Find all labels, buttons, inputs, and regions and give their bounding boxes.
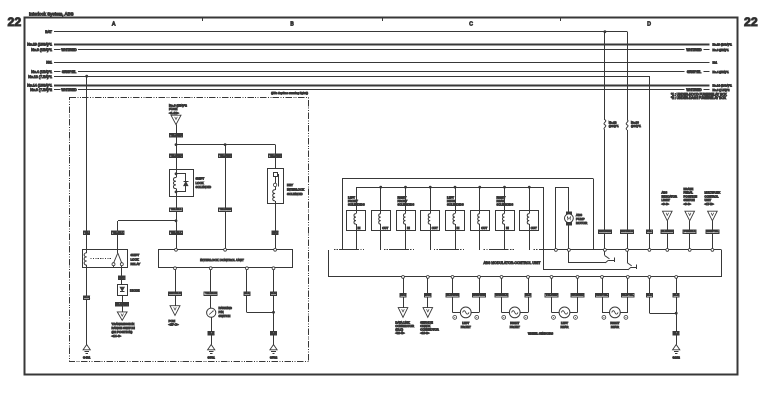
- svg-text:OUT: OUT: [382, 226, 388, 230]
- svg-text:SOLENOIDS: SOLENOIDS: [348, 203, 365, 207]
- wire WHT/BLU to PCM: [169, 270, 182, 306]
- svg-text:WHT/BLU: WHT/BLU: [169, 291, 181, 295]
- svg-text:<9-8>: <9-8>: [662, 202, 670, 206]
- svg-text:G501: G501: [208, 355, 216, 359]
- wire YEL/RED to key interlock solenoid: [269, 145, 282, 169]
- footnote fuse box legend: [671, 92, 728, 100]
- svg-text:GRY: GRY: [400, 293, 406, 297]
- wire BLU/GRN to LEFT FRONT sensor: [446, 278, 460, 312]
- wire BLU to RIGHT FRONT sensor: [520, 278, 531, 312]
- wire YEL/RED from fuse: [170, 125, 183, 170]
- svg-text:IN: IN: [407, 226, 410, 230]
- solenoid LEFT REAR OUT: [471, 187, 490, 250]
- svg-text:BLU: BLU: [525, 293, 530, 297]
- op box interlock control unit U1: [159, 248, 293, 269]
- wire No.13 (7.5A) bus: [28, 75, 649, 79]
- svg-text:REAR: REAR: [560, 325, 568, 329]
- svg-text:GRN/YEL: GRN/YEL: [687, 70, 701, 74]
- svg-text:<14-4>: <14-4>: [112, 334, 122, 338]
- wire GRY key interlock to control unit: [272, 204, 278, 249]
- solenoid LEFT FRONT OUT: [372, 187, 391, 250]
- wire GRN/YEL No.4 (15A) bus: [31, 70, 729, 74]
- label RIGHT FRONT SOLENOIDS: [398, 195, 415, 206]
- wire BLK U2 pin 11: [646, 278, 676, 313]
- svg-text:FRONT: FRONT: [461, 325, 471, 329]
- svg-text:No.6 (7.5A)*2: No.6 (7.5A)*2: [713, 88, 730, 92]
- svg-text:SOLENOID: SOLENOID: [196, 185, 212, 189]
- svg-text:<16-3>: <16-3>: [395, 331, 404, 335]
- wire motor feed over solenoids: [342, 178, 594, 250]
- svg-text:PNK/BLK: PNK/BLK: [684, 229, 696, 233]
- wire IG1 bus: [46, 61, 717, 65]
- svg-text:YEL/RED: YEL/RED: [546, 293, 558, 297]
- sensor wheel LEFT FRONT: [453, 307, 479, 329]
- label RIGHT REAR SOLENOIDS: [497, 195, 514, 206]
- wire BLK control unit pin 3: [244, 270, 274, 313]
- svg-text:GRN/BLK: GRN/BLK: [495, 293, 507, 297]
- svg-text:(KS: daytime running lights): (KS: daytime running lights): [271, 91, 308, 95]
- label LEFT REAR SOLENOIDS: [447, 195, 464, 206]
- connector arrow multiplex control unit with wire GRN/YEL: [705, 191, 721, 249]
- switch parking pin: [207, 306, 233, 318]
- node BAT junction: [604, 30, 607, 33]
- wire GRN/YEL to RIGHT REAR sensor: [596, 278, 610, 312]
- svg-text:GRY: GRY: [119, 275, 125, 279]
- svg-text:INTERLOCK CONTROL UNIT: INTERLOCK CONTROL UNIT: [200, 258, 244, 262]
- svg-text:YEL/RED: YEL/RED: [219, 154, 231, 158]
- dashed box KS daytime running lights: [70, 91, 309, 361]
- svg-text:BRN/WHT: BRN/WHT: [473, 293, 486, 297]
- svg-text:G401: G401: [83, 355, 91, 359]
- svg-text:D: D: [647, 22, 651, 28]
- solenoid RIGHT FRONT OUT: [421, 187, 440, 250]
- wire BLK control unit pin 4 to ground: [270, 270, 276, 345]
- sensor wheel RIGHT FRONT: [502, 307, 528, 329]
- label wheel sensors: [528, 332, 553, 336]
- svg-text:BLK: BLK: [647, 293, 652, 297]
- wire GRY relay to diode: [119, 268, 125, 285]
- svg-text:YEL/BLK: YEL/BLK: [112, 230, 123, 234]
- wire YEL/RED branch node: [175, 143, 276, 146]
- solenoid shift lock: [170, 170, 212, 197]
- pins U2 bottom: [402, 276, 678, 279]
- svg-text:C: C: [469, 22, 473, 28]
- relay contact fail-safe (inside U2): [544, 187, 637, 270]
- ground G502: [270, 345, 278, 360]
- wire BAT bus: [45, 30, 627, 34]
- svg-text:<17-B>: <17-B>: [705, 202, 715, 206]
- svg-text:*2 : UNDER-DASH FUSE/RELAY BOX: *2 : UNDER-DASH FUSE/RELAY BOX: [671, 96, 727, 100]
- svg-text:YEL/RED: YEL/RED: [170, 154, 182, 158]
- svg-text:BAT: BAT: [45, 30, 53, 34]
- wire WHT/RED No.6 (15A) bus: [31, 48, 729, 52]
- svg-text:BLK: BLK: [674, 293, 679, 297]
- svg-text:SOLENOID: SOLENOID: [287, 192, 303, 196]
- svg-text:BRN: BRN: [425, 293, 431, 297]
- motor ABS pump: [556, 187, 588, 250]
- solenoid key interlock: [268, 169, 305, 204]
- svg-text:YEL/RED: YEL/RED: [219, 207, 231, 211]
- svg-text:BLK: BLK: [271, 331, 276, 335]
- connector arrow transmission range switch: [112, 312, 135, 338]
- svg-text:BLU/GRN: BLU/GRN: [446, 293, 458, 297]
- svg-text:WHT/BLU: WHT/BLU: [621, 229, 633, 233]
- svg-text:No.6 (15A)*1: No.6 (15A)*1: [713, 48, 730, 52]
- wire GRY/RED to LEFT REAR sensor: [570, 278, 584, 312]
- diode box: [118, 285, 140, 296]
- sensor wheel RIGHT REAR: [602, 307, 628, 329]
- connector arrow brake pedal position switch with wire PNK/BLK: [683, 187, 697, 249]
- page number left: [8, 15, 22, 29]
- title Interlock System, ABS: [29, 12, 74, 17]
- svg-text:DIODE: DIODE: [130, 289, 140, 293]
- wire solenoid supply rail: [356, 186, 544, 189]
- ground G202: [673, 345, 681, 360]
- solenoid RIGHT REAR IN: [496, 187, 515, 250]
- svg-text:BLU/RED: BLU/RED: [661, 229, 673, 233]
- wire YEL from No.13 bus: [84, 75, 90, 250]
- wire BLK parking pin switch to ground: [208, 317, 214, 344]
- wire WHT/RED No.6 (7.5A) bus: [30, 88, 730, 92]
- svg-text:GRN/YEL: GRN/YEL: [706, 229, 719, 233]
- svg-text:GRN/YEL: GRN/YEL: [596, 293, 609, 297]
- op box ABS modulator-control unit U2: [328, 250, 721, 277]
- svg-text:G202: G202: [673, 355, 681, 359]
- grid column letters: [112, 22, 651, 28]
- connector arrow service check connector: [420, 308, 439, 336]
- svg-text:REAR: REAR: [611, 325, 619, 329]
- svg-text:MOTOR: MOTOR: [576, 221, 588, 225]
- svg-text:WHEEL SENSORS: WHEEL SENSORS: [528, 332, 553, 336]
- svg-text:SOLENOIDS: SOLENOIDS: [447, 203, 464, 207]
- svg-text:No.6 (7.5A)*2: No.6 (7.5A)*2: [30, 88, 52, 92]
- fuse No.6 (15A) page arrow: [169, 104, 187, 125]
- svg-text:WHT/RED: WHT/RED: [686, 48, 702, 52]
- ground G401: [83, 345, 91, 360]
- wire No.14 (100A) bus: [27, 83, 732, 87]
- svg-text:YEL/RED: YEL/RED: [269, 154, 281, 158]
- svg-text:OUT: OUT: [481, 226, 487, 230]
- pins U2 top: [648, 249, 714, 252]
- svg-text:(30A)*1: (30A)*1: [631, 124, 641, 128]
- svg-text:22: 22: [8, 15, 22, 29]
- fusible link No.13 (30A) with wire WHT/RED: [598, 32, 619, 249]
- svg-text:YEL/BLU: YEL/BLU: [205, 291, 216, 295]
- wire YEL/RED to shift lock solenoid: [170, 154, 183, 158]
- connector arrow PCM: [169, 306, 181, 327]
- svg-text:OUT: OUT: [432, 226, 438, 230]
- svg-text:No.6 (15A)*1: No.6 (15A)*1: [31, 48, 52, 52]
- svg-text:WHT/RED: WHT/RED: [686, 88, 702, 92]
- svg-text:SWITCH: SWITCH: [219, 314, 231, 318]
- svg-text:G502: G502: [270, 355, 278, 359]
- relay shift lock: [83, 250, 141, 269]
- svg-text:<9-8>: <9-8>: [684, 202, 692, 206]
- solenoid LEFT FRONT IN: [347, 187, 366, 250]
- svg-text:YEL/BLK: YEL/BLK: [170, 230, 181, 234]
- svg-text:No.4 (15A)*1: No.4 (15A)*1: [31, 70, 52, 74]
- wire YEL/BLU to parking pin switch: [204, 270, 217, 309]
- page number right: [744, 15, 758, 29]
- wire YEL/RED to LEFT REAR sensor: [545, 278, 559, 312]
- svg-text:BLU/YEL: BLU/YEL: [622, 293, 634, 297]
- svg-text:YEL: YEL: [647, 229, 653, 233]
- svg-text:No.14 (100A)*1: No.14 (100A)*1: [27, 83, 52, 87]
- sensor wheel LEFT REAR: [552, 307, 578, 329]
- relay contact motor (inside U2): [555, 249, 615, 263]
- svg-text:IN: IN: [457, 226, 460, 230]
- label LEFT FRONT SOLENOIDS: [348, 195, 365, 206]
- svg-text:FRONT: FRONT: [510, 325, 520, 329]
- svg-text:GRY: GRY: [272, 230, 278, 234]
- connector arrow data link connector DLC: [395, 308, 414, 336]
- svg-text:OUT: OUT: [531, 226, 537, 230]
- svg-text:IN: IN: [506, 226, 509, 230]
- wire No.19 (100A) bus: [27, 42, 732, 46]
- svg-text:IG1: IG1: [713, 61, 718, 65]
- wire YEL from No.13 bus to ABS unit: [646, 76, 652, 248]
- svg-text:BLK: BLK: [209, 331, 214, 335]
- wire GRY to data link connector: [400, 278, 406, 307]
- svg-text:SOLENOIDS: SOLENOIDS: [398, 203, 415, 207]
- svg-text:No.19 (100A)*1: No.19 (100A)*1: [713, 42, 733, 46]
- svg-text:BLK/RED: BLK/RED: [116, 302, 128, 306]
- solenoid RIGHT REAR OUT: [520, 187, 539, 250]
- svg-text:<1-12>: <1-12>: [169, 111, 179, 115]
- svg-text:(30A)*1: (30A)*1: [609, 124, 619, 128]
- svg-text:ABS MODULATOR-CONTROL UNIT: ABS MODULATOR-CONTROL UNIT: [483, 261, 540, 265]
- svg-text:GRN/YEL: GRN/YEL: [62, 70, 76, 74]
- svg-text:<16-3>: <16-3>: [420, 331, 429, 335]
- svg-text:Interlock System, ABS: Interlock System, ABS: [29, 12, 74, 17]
- svg-text:No.19 (100A)*1: No.19 (100A)*1: [27, 42, 52, 46]
- svg-text:No.4 (15A)*1: No.4 (15A)*1: [713, 70, 730, 74]
- solenoid RIGHT FRONT IN: [397, 187, 416, 250]
- wire BLU/YEL to RIGHT REAR sensor: [620, 278, 634, 312]
- svg-text:WHT/RED: WHT/RED: [61, 88, 77, 92]
- svg-text:<27-C>: <27-C>: [169, 323, 179, 327]
- svg-text:YEL/RED: YEL/RED: [170, 133, 182, 137]
- fusible link No.36 (30A) with wire WHT/BLU: [621, 32, 642, 249]
- svg-text:No.13 (7.5A)*1: No.13 (7.5A)*1: [28, 75, 52, 79]
- svg-text:BLK: BLK: [674, 331, 679, 335]
- svg-text:GRY/RED: GRY/RED: [571, 293, 583, 297]
- svg-text:WHT/RED: WHT/RED: [598, 229, 611, 233]
- svg-text:BLK: BLK: [271, 291, 276, 295]
- wire BLK/RED to transmission range switch: [116, 296, 129, 312]
- svg-text:No.14 (100A)*1: No.14 (100A)*1: [713, 83, 733, 87]
- svg-text:RELAY: RELAY: [131, 262, 141, 266]
- svg-text:IN: IN: [358, 226, 361, 230]
- wire BRN to service check connector: [425, 278, 431, 307]
- svg-text:22: 22: [744, 15, 758, 29]
- wire YEL/BLK net: [111, 197, 182, 250]
- svg-text:WHT/RED: WHT/RED: [61, 48, 77, 52]
- wire GRN/BLK to RIGHT FRONT sensor: [495, 278, 509, 312]
- connector arrow ABS indicator light with wire BLU/RED: [661, 191, 677, 249]
- ground G501: [208, 345, 216, 360]
- solenoid LEFT REAR IN: [446, 187, 465, 250]
- svg-text:BLK: BLK: [84, 295, 89, 299]
- wire BLK U2 pin 12 to ground: [673, 278, 679, 344]
- svg-text:BLK: BLK: [244, 291, 249, 295]
- wire BRN/WHT to LEFT FRONT sensor: [471, 278, 486, 312]
- svg-text:YEL/BLK: YEL/BLK: [170, 207, 181, 211]
- svg-text:YEL: YEL: [84, 230, 90, 234]
- wire BLK relay coil to ground: [84, 268, 90, 344]
- svg-text:SOLENOIDS: SOLENOIDS: [497, 203, 514, 207]
- wire YEL/RED to interlock control unit: [219, 145, 232, 249]
- svg-text:IG1: IG1: [46, 61, 52, 65]
